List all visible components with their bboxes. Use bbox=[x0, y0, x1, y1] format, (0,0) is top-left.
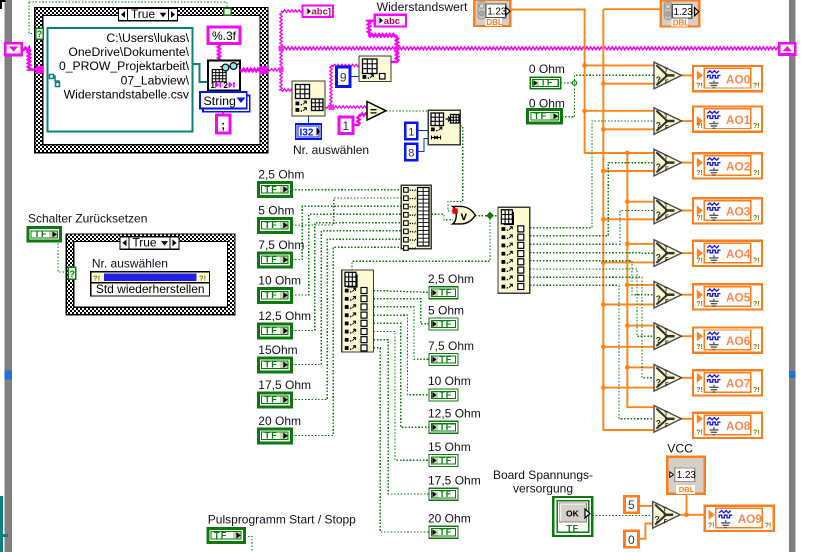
svg-text:?!: ?! bbox=[696, 429, 703, 436]
svg-text:10 Ohm: 10 Ohm bbox=[258, 274, 301, 288]
svg-text:True: True bbox=[131, 7, 156, 21]
svg-text:1: 1 bbox=[211, 81, 216, 90]
svg-text:Nr. auswählen: Nr. auswählen bbox=[293, 143, 369, 157]
case 1 left string tunnel bbox=[36, 66, 43, 74]
TF control 0 Ohm bbox=[528, 110, 562, 124]
svg-text:?!: ?! bbox=[753, 170, 760, 177]
svg-text:2,5 Ohm: 2,5 Ohm bbox=[258, 168, 304, 182]
case 1 right string tunnel bbox=[260, 66, 268, 74]
wire select9 to AO9 bbox=[680, 514, 706, 516]
svg-text:8: 8 bbox=[408, 148, 414, 160]
svg-text:5 Ohm: 5 Ohm bbox=[258, 204, 294, 218]
wire orange from DBL1 to V1 bbox=[510, 10, 654, 154]
svg-text:?!: ?! bbox=[696, 123, 703, 130]
svg-text:Std wiederherstellen: Std wiederherstellen bbox=[96, 282, 205, 296]
svg-text:TF: TF bbox=[265, 395, 279, 405]
svg-text:07_Labview\: 07_Labview\ bbox=[121, 73, 190, 87]
wires index array 1 to selects bbox=[530, 121, 654, 228]
svg-text:T: T bbox=[664, 288, 668, 294]
TF control 20 Ohm bbox=[258, 429, 291, 443]
svg-text:?: ? bbox=[656, 335, 661, 345]
svg-text:5: 5 bbox=[628, 498, 635, 512]
select function 2 bbox=[654, 149, 682, 176]
read delimited spreadsheet VI bbox=[208, 61, 240, 91]
build array node bbox=[401, 185, 431, 250]
TF indicator 5 Ohm bbox=[429, 318, 458, 330]
svg-text:TF: TF bbox=[567, 524, 579, 534]
string wire to array-string indicator bbox=[281, 10, 303, 12]
svg-text:Widerstandstabelle.csv: Widerstandstabelle.csv bbox=[64, 87, 190, 101]
svg-text:AO9: AO9 bbox=[738, 512, 763, 526]
TF indicator 0 Ohm bbox=[530, 77, 561, 89]
DAQ output AO7 bbox=[693, 370, 762, 395]
numeric control VCC DBL bbox=[667, 457, 705, 494]
svg-text:F: F bbox=[665, 382, 669, 388]
svg-text:F: F bbox=[665, 341, 669, 347]
svg-text:Schalter Zurücksetzen: Schalter Zurücksetzen bbox=[28, 212, 147, 226]
svg-text:AO6: AO6 bbox=[726, 334, 751, 348]
svg-text:9: 9 bbox=[340, 71, 347, 85]
wire green top-left to case selector bbox=[29, 1, 227, 3]
svg-text:TF: TF bbox=[534, 111, 548, 121]
string indicator abc bbox=[375, 15, 406, 27]
wire pulsprogramm TF down bbox=[245, 537, 253, 552]
svg-text:?!: ?! bbox=[696, 215, 703, 222]
string array indicator [abc] bbox=[303, 6, 334, 18]
svg-text:2,5 Ohm: 2,5 Ohm bbox=[428, 272, 474, 286]
cropped corner glyph top-left bbox=[0, 0, 6, 9]
wires index array 2 to TF indicators bbox=[374, 291, 430, 293]
svg-text:F: F bbox=[664, 519, 668, 525]
svg-text:12,5 Ohm: 12,5 Ohm bbox=[428, 407, 481, 421]
property node Std wiederherstellen bbox=[91, 272, 210, 296]
svg-text:?!: ?! bbox=[753, 387, 760, 394]
TF indicator 2,5 Ohm bbox=[429, 287, 458, 299]
svg-text:F: F bbox=[665, 258, 669, 264]
svg-text:10 Ohm: 10 Ohm bbox=[428, 374, 471, 388]
svg-text:=: = bbox=[370, 104, 377, 118]
svg-text:?: ? bbox=[656, 210, 661, 220]
TF control 10 Ohm bbox=[258, 288, 291, 302]
string wire nr-node connections bbox=[325, 106, 367, 108]
TF control 17,5 Ohm bbox=[258, 393, 291, 407]
svg-text:?!: ?! bbox=[696, 257, 703, 264]
TF indicator 12,5 Ohm bbox=[429, 421, 458, 433]
svg-text:TF: TF bbox=[541, 78, 554, 88]
svg-text:?!: ?! bbox=[708, 522, 715, 529]
select function 8 bbox=[654, 406, 682, 433]
svg-text:2: 2 bbox=[224, 81, 229, 90]
svg-text:1: 1 bbox=[343, 119, 350, 133]
svg-text:?!: ?! bbox=[753, 215, 760, 222]
case 1 top tunnel bbox=[224, 8, 232, 15]
svg-text:TF: TF bbox=[439, 390, 452, 400]
svg-text:T: T bbox=[664, 203, 668, 209]
svg-text:?!: ?! bbox=[753, 257, 760, 264]
svg-text:T: T bbox=[663, 508, 667, 514]
file path constant bbox=[48, 28, 193, 132]
wire OK button to select 9 bbox=[592, 515, 652, 517]
svg-text:0: 0 bbox=[628, 533, 635, 547]
svg-text:Nr. auswählen: Nr. auswählen bbox=[92, 257, 168, 271]
cropped teal structure bottom-left bbox=[0, 496, 8, 552]
svg-text:7,5 Ohm: 7,5 Ohm bbox=[428, 339, 474, 353]
svg-text:TF: TF bbox=[439, 354, 452, 364]
TF indicator 20 Ohm bbox=[429, 526, 458, 538]
index array node 1 (to selects) bbox=[498, 207, 530, 293]
svg-text:20 Ohm: 20 Ohm bbox=[428, 512, 471, 526]
svg-text:TF: TF bbox=[439, 527, 452, 537]
wire semicolon to combo bbox=[222, 112, 224, 116]
case 1 selector tunnel ? bbox=[36, 28, 44, 39]
svg-text:TF: TF bbox=[265, 290, 279, 300]
svg-text:7,5 Ohm: 7,5 Ohm bbox=[258, 238, 304, 252]
svg-text:TF: TF bbox=[439, 489, 452, 499]
svg-text:?!: ?! bbox=[753, 429, 760, 436]
right border blue tunnel bbox=[789, 371, 796, 378]
svg-text:TF: TF bbox=[265, 255, 279, 265]
select function 3 bbox=[654, 197, 682, 224]
svg-text:TF: TF bbox=[265, 431, 279, 441]
svg-text:?: ? bbox=[656, 252, 661, 262]
svg-text:0 Ohm: 0 Ohm bbox=[529, 62, 565, 76]
svg-text:T: T bbox=[664, 155, 668, 161]
wire build-array to or-gate bbox=[431, 214, 453, 219]
I32 indicator Nr auswaehlen bbox=[296, 124, 322, 139]
svg-text:T: T bbox=[664, 371, 668, 377]
format string constant %.3f bbox=[208, 27, 240, 44]
svg-text:AO7: AO7 bbox=[726, 377, 751, 391]
svg-text:?: ? bbox=[655, 514, 660, 524]
TF control 7,5 Ohm bbox=[258, 253, 291, 267]
svg-text:versorgung: versorgung bbox=[513, 482, 573, 496]
string wire const 1 to equals bbox=[353, 113, 367, 125]
svg-text:0_PROW_Projektarbeit\: 0_PROW_Projektarbeit\ bbox=[59, 59, 190, 73]
svg-text:TF: TF bbox=[34, 229, 48, 239]
svg-text:TF: TF bbox=[439, 422, 452, 432]
select function 1 bbox=[654, 108, 682, 135]
DAQ output AO9 bbox=[705, 506, 774, 531]
case 1 selector label bbox=[119, 7, 178, 21]
svg-text:T: T bbox=[664, 329, 668, 335]
DAQ output AO1 bbox=[693, 107, 762, 132]
svg-text:%.3f: %.3f bbox=[212, 29, 237, 43]
svg-text:T: T bbox=[664, 114, 668, 120]
case structure 1 (file read) bbox=[35, 8, 268, 153]
svg-text:17,5 Ohm: 17,5 Ohm bbox=[428, 474, 481, 488]
left border blue tunnel bbox=[5, 371, 12, 380]
svg-text:TF: TF bbox=[265, 184, 279, 194]
TF control 5 Ohm bbox=[258, 218, 291, 232]
string type combo constant bbox=[200, 92, 250, 112]
svg-text:TF: TF bbox=[265, 220, 279, 230]
svg-text:?: ? bbox=[656, 294, 661, 304]
DAQ output AO3 bbox=[693, 198, 762, 223]
wire select outputs to AO blocks bbox=[682, 74, 695, 76]
svg-text:?!: ?! bbox=[765, 522, 772, 529]
svg-text:?!: ?! bbox=[753, 83, 760, 90]
wires TF controls to build array bbox=[292, 189, 402, 191]
wire equals to array subset bbox=[386, 110, 428, 112]
svg-text:?: ? bbox=[656, 418, 661, 428]
wire VCC to AO9 junction bbox=[686, 494, 688, 515]
svg-text:AO4: AO4 bbox=[726, 247, 751, 261]
select function 5 bbox=[654, 281, 682, 308]
wire orange V2 to DBL2 bbox=[603, 8, 660, 10]
svg-text:17,5 Ohm: 17,5 Ohm bbox=[258, 378, 311, 392]
wires 1,8 to subset bbox=[417, 130, 428, 132]
svg-text:?: ? bbox=[656, 377, 661, 387]
constant 1 (pink) bbox=[339, 117, 353, 134]
wire schalter to case2 selector bbox=[58, 240, 68, 272]
TF indicator 10 Ohm bbox=[429, 389, 458, 401]
svg-text:?: ? bbox=[656, 74, 661, 84]
svg-text:15Ohm: 15Ohm bbox=[258, 343, 297, 357]
svg-text:?: ? bbox=[69, 269, 75, 279]
numeric indicator DBL 2 bbox=[661, 1, 700, 28]
wire 0 Ohm TFs to select 0 bbox=[561, 82, 572, 84]
OK button control bbox=[553, 497, 592, 536]
svg-text:DBL: DBL bbox=[673, 19, 690, 28]
svg-text:v: v bbox=[461, 211, 468, 223]
TF indicator 17,5 Ohm bbox=[429, 488, 458, 500]
wire 9 to node bbox=[350, 76, 359, 78]
orange junction dots bbox=[582, 63, 587, 68]
index array node 9 bbox=[359, 56, 391, 82]
svg-text:TF: TF bbox=[214, 530, 228, 540]
svg-text:?: ? bbox=[656, 120, 661, 130]
numeric indicator Widerstandswert DBL bbox=[474, 0, 510, 27]
select function 9 bbox=[653, 502, 681, 529]
constant 9 bbox=[337, 67, 351, 87]
svg-text:C:\Users\lukas\: C:\Users\lukas\ bbox=[106, 31, 189, 45]
wire 0 to select9 bbox=[638, 524, 652, 539]
svg-text:TF: TF bbox=[439, 455, 452, 465]
DAQ output AO0 bbox=[693, 66, 762, 91]
DAQ output AO5 bbox=[693, 284, 762, 309]
svg-text:1.23: 1.23 bbox=[674, 7, 694, 18]
string wire riser from case tunnel bbox=[280, 11, 292, 91]
wire array subset to or-gate bbox=[448, 126, 463, 211]
wire format to VI bbox=[218, 44, 220, 61]
svg-text:T: T bbox=[664, 246, 668, 252]
select function 6 bbox=[654, 323, 682, 350]
svg-text:AO1: AO1 bbox=[726, 113, 751, 127]
svg-text:5 Ohm: 5 Ohm bbox=[428, 303, 464, 317]
wire shift register to case 1 bbox=[22, 48, 36, 70]
svg-text:abc]: abc] bbox=[312, 7, 332, 18]
TF control 2,5 Ohm bbox=[258, 182, 291, 196]
DAQ output AO8 bbox=[693, 413, 762, 438]
svg-text:Board Spannungs-: Board Spannungs- bbox=[493, 468, 593, 482]
svg-text:T: T bbox=[664, 412, 668, 418]
svg-text:?!: ?! bbox=[753, 344, 760, 351]
string wire 9node to abc indicator bbox=[368, 21, 398, 62]
TF control Pulsprogramm bbox=[208, 528, 245, 542]
DAQ output AO6 bbox=[693, 328, 762, 353]
constant 1 (blue) bbox=[405, 123, 417, 140]
svg-text:F: F bbox=[665, 423, 669, 429]
select function 0 bbox=[654, 62, 682, 89]
svg-text:Pulsprogramm Start / Stopp: Pulsprogramm Start / Stopp bbox=[208, 513, 356, 527]
TF indicator 15 Ohm bbox=[429, 455, 458, 467]
TF control Schalter bbox=[28, 228, 61, 242]
svg-text:15 Ohm: 15 Ohm bbox=[428, 440, 471, 454]
svg-text:?!: ?! bbox=[696, 344, 703, 351]
svg-text:F: F bbox=[665, 167, 669, 173]
wire nr-node to I32 bbox=[308, 116, 310, 124]
svg-text:?: ? bbox=[656, 162, 661, 172]
svg-text:F: F bbox=[665, 215, 669, 221]
wire or-gate to index arrays bbox=[475, 215, 498, 217]
svg-text:F: F bbox=[665, 299, 669, 305]
svg-text:AO2: AO2 bbox=[726, 160, 751, 174]
index array node Nr (search) bbox=[292, 81, 325, 116]
constant 8 (blue) bbox=[405, 144, 417, 161]
select function 4 bbox=[654, 240, 682, 267]
TF indicator 7,5 Ohm bbox=[429, 354, 458, 366]
svg-text:?!: ?! bbox=[753, 301, 760, 308]
svg-text:OneDrive\Dokumente\: OneDrive\Dokumente\ bbox=[68, 45, 189, 59]
string bus wire main horizontal bbox=[281, 47, 779, 50]
svg-text:abc: abc bbox=[384, 16, 400, 27]
svg-text:12,5 Ohm: 12,5 Ohm bbox=[258, 309, 311, 323]
svg-text:20 Ohm: 20 Ohm bbox=[258, 414, 301, 428]
case structure 2 (reset) bbox=[66, 234, 235, 315]
equals comparator bbox=[367, 102, 386, 121]
wire VI to right tunnel bbox=[240, 69, 260, 71]
svg-text:AO5: AO5 bbox=[726, 291, 751, 305]
left shift register bbox=[5, 43, 21, 55]
constant 5 bbox=[624, 496, 638, 513]
svg-text:?!: ?! bbox=[696, 83, 703, 90]
svg-text:True: True bbox=[132, 235, 157, 249]
svg-text:AO0: AO0 bbox=[726, 72, 751, 86]
svg-text:TF: TF bbox=[439, 288, 452, 298]
svg-text:I32: I32 bbox=[300, 127, 314, 138]
or gate compound arithmetic bbox=[452, 206, 475, 224]
array subset node bbox=[428, 110, 460, 145]
case 2 selector tunnel ? bbox=[68, 267, 76, 279]
index array node 2 (to TF indicators) bbox=[342, 270, 374, 352]
case 2 selector label bbox=[120, 235, 179, 249]
svg-text:TF: TF bbox=[265, 360, 279, 370]
DAQ output AO2 bbox=[693, 153, 762, 178]
DAQ output AO4 bbox=[693, 241, 762, 266]
svg-text:?!: ?! bbox=[753, 123, 760, 130]
path constant glyph bbox=[51, 76, 59, 86]
wire 5 to select9 bbox=[638, 505, 652, 507]
svg-text:String: String bbox=[204, 94, 236, 108]
svg-text:AO3: AO3 bbox=[726, 205, 751, 219]
svg-text:?: ? bbox=[37, 29, 43, 39]
right shift register bbox=[779, 43, 795, 54]
while loop right border bbox=[789, 0, 796, 552]
svg-text:1: 1 bbox=[408, 127, 414, 139]
wire orange select bottom inputs bbox=[603, 83, 654, 85]
svg-text:VCC: VCC bbox=[667, 442, 693, 456]
svg-text:F: F bbox=[665, 126, 669, 132]
wire orange stub vertical bbox=[627, 153, 653, 407]
delimiter constant ; bbox=[216, 115, 230, 133]
while loop left border bbox=[5, 0, 12, 552]
svg-text:DBL: DBL bbox=[486, 18, 503, 27]
svg-text:TF: TF bbox=[439, 319, 452, 329]
TF control 15Ohm bbox=[258, 358, 291, 372]
svg-text:TF: TF bbox=[265, 326, 279, 336]
select function 7 bbox=[654, 365, 682, 392]
constant 0 bbox=[624, 531, 638, 548]
svg-text:AO8: AO8 bbox=[726, 419, 751, 433]
svg-text:;: ; bbox=[221, 118, 225, 132]
svg-text:1.23: 1.23 bbox=[677, 470, 697, 481]
svg-text:Widerstandswert: Widerstandswert bbox=[377, 0, 468, 14]
wire path to VI bbox=[192, 64, 208, 82]
TF control 12,5 Ohm bbox=[258, 324, 291, 338]
svg-text:F: F bbox=[665, 80, 669, 86]
svg-text:T: T bbox=[664, 68, 668, 74]
svg-text:OK: OK bbox=[566, 509, 580, 519]
wire orange V2 vertical bbox=[603, 9, 656, 430]
wire orange select top inputs bbox=[585, 64, 654, 66]
svg-text:1.23: 1.23 bbox=[487, 6, 507, 17]
svg-text:?!: ?! bbox=[696, 301, 703, 308]
svg-text:?!: ?! bbox=[696, 387, 703, 394]
svg-text:DBL: DBL bbox=[679, 485, 695, 494]
svg-text:?!: ?! bbox=[696, 170, 703, 177]
